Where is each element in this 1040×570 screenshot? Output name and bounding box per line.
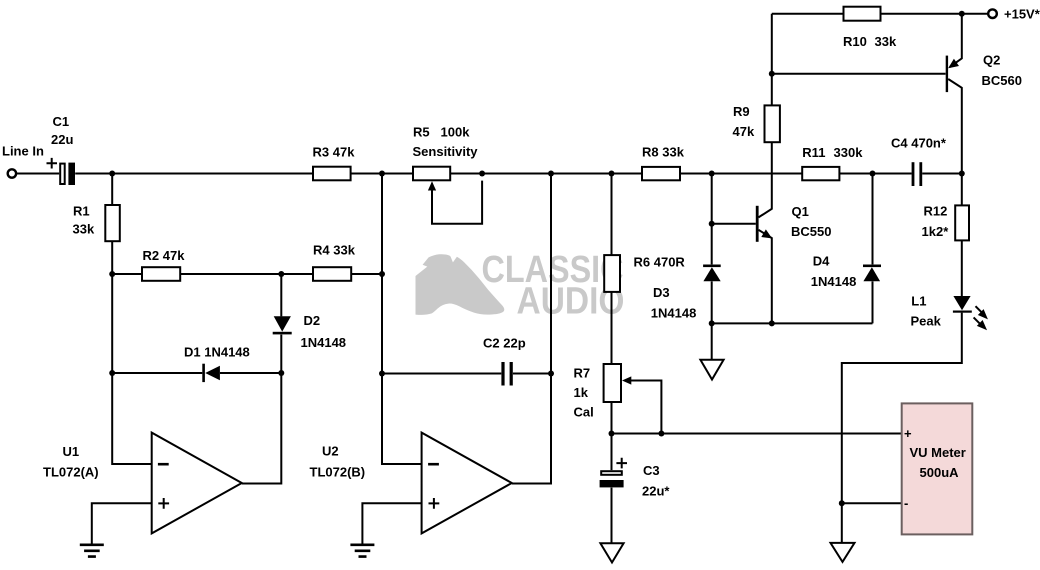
svg-text:D3: D3 [653,285,670,300]
svg-text:1N4148: 1N4148 [651,305,697,320]
op-amp U1 [152,433,242,534]
svg-text:R5: R5 [413,124,430,139]
ground (3-bar) under U1 [80,545,104,557]
wire: mid rail y=274 [112,273,382,275]
svg-text:R2 47k: R2 47k [143,248,186,263]
wire: Q1 base wire [712,223,756,225]
svg-text:U1: U1 [63,444,80,459]
wire: Q1 emitter to bottom rail [759,230,772,324]
LED L1 arrows [974,306,982,323]
svg-text:C3: C3 [643,463,660,478]
capacitor C1 plates [60,164,64,184]
capacitor C4 plates [912,162,915,186]
op-amp U2 [422,433,512,534]
wire: vertical x=771.8 from top rail through R9 to Q1 collector [759,14,772,218]
wire: U2 plus input to ground [362,503,421,543]
wire: vertical x=711.7 D3 branch [711,174,713,360]
diode D4 [863,265,881,268]
ground (triangle) under D3 [700,360,723,380]
capacitor C3 plates [601,471,622,475]
resistor R4 [313,267,351,281]
resistor R8 [642,167,680,180]
wire: C2 rail y=373.5 [382,373,551,375]
resistor R10 [844,7,881,21]
transistor Q1 [756,206,759,242]
resistor R9 [765,105,780,142]
potentiometer R7 body [604,364,621,402]
svg-text:R9: R9 [733,104,750,119]
wire: bottom rail y=323.4 [712,322,873,324]
resistor R3 [313,167,351,181]
capacitor C2 plates [501,362,504,386]
svg-text:C2 22p: C2 22p [483,335,526,350]
svg-text:R8 33k: R8 33k [642,144,685,159]
svg-text:D4: D4 [813,254,830,269]
svg-text:R4 33k: R4 33k [313,243,356,258]
wire: vertical x=872.5 D4 branch [872,174,874,324]
diode D1 [205,366,220,381]
wire: Q2 base wire y=73.7 [772,73,946,75]
wire: vertical x=551 to U2 output [512,174,551,484]
resistor R1 [105,205,120,241]
svg-text:33k: 33k [73,221,95,236]
wire: cal rail y=433.5 to VU plus [612,433,902,435]
svg-text:R7: R7 [574,366,591,381]
wire: D1 feedback rail y=373 [112,372,281,374]
svg-text:1N4148: 1N4148 [301,335,347,350]
supply terminal +15V [988,9,997,18]
wire: vertical x=961.8 through R12 LED down to VU minus and ground [842,174,962,543]
svg-text:+: + [904,426,912,441]
watermark logo silhouette [416,254,505,315]
svg-text:C4 470n*: C4 470n* [891,136,947,151]
resistor R2 [142,267,180,281]
wire: R7 wiper return [630,381,662,434]
potentiometer R5 wiper arrow [428,181,436,190]
svg-text:TL072(B): TL072(B) [310,465,366,480]
svg-text:33k: 33k [875,34,897,49]
svg-text:500uA: 500uA [920,465,960,480]
svg-text:-: - [904,496,908,511]
svg-text:1k: 1k [574,385,589,400]
wire: top supply rail y=13.7 [772,13,988,15]
diode D2 [274,316,291,331]
svg-text:+15V*: +15V* [1004,6,1040,21]
svg-text:R6 470R: R6 470R [634,255,686,270]
resistor R11 [802,167,839,180]
diode D3 [703,265,721,268]
svg-text:TL072(A): TL072(A) [43,465,99,480]
wire: vertical x=611.5 through R6 R7 C3 [611,174,613,544]
wire: top signal rail y=173.5 [16,173,962,175]
resistor R6 [604,255,620,292]
svg-text:22u: 22u [51,132,73,147]
svg-text:R1: R1 [73,203,90,218]
svg-text:BC550: BC550 [791,224,831,239]
wire: vertical x=281.3 D2 branch to U1 output [242,274,281,484]
resistor R12 [955,205,969,240]
LED L1 [953,296,970,310]
svg-text:C1: C1 [53,114,70,129]
svg-text:Q1: Q1 [792,204,809,219]
svg-text:BC560: BC560 [982,73,1022,88]
svg-text:U2: U2 [322,444,339,459]
wire: U1 plus input to ground [92,503,152,543]
svg-text:R11: R11 [802,145,825,160]
ground (triangle) under VU meter [831,543,855,562]
svg-text:1N4148: 1N4148 [811,274,857,289]
svg-text:22u*: 22u* [642,484,670,499]
wire: Q2 emitter and collector [948,14,962,174]
VU meter box [902,403,973,534]
transistor Q2 [946,56,948,93]
wire: vertical x=382 to U2 minus input [382,174,422,465]
wire: R5 wiper return [432,181,482,224]
svg-text:D2: D2 [304,313,321,328]
input terminal Line In [8,169,16,177]
svg-text:Peak: Peak [911,314,942,329]
svg-text:Sensitivity: Sensitivity [413,144,479,159]
ground (triangle) under C3 [600,543,623,562]
capacitor C3 plus sign [616,458,627,469]
svg-text:100k: 100k [441,124,471,139]
svg-text:L1: L1 [911,294,926,309]
wire: left vertical x=112.2 and U1 minus input [112,174,152,465]
svg-text:R3 47k: R3 47k [313,144,356,159]
svg-text:D1 1N4148: D1 1N4148 [184,345,250,360]
svg-text:VU Meter: VU Meter [910,445,966,460]
potentiometer R7 wiper arrow [622,376,631,384]
svg-text:47k: 47k [733,124,755,139]
svg-text:Line In: Line In [2,143,44,158]
ground (3-bar) under U2 [350,545,374,557]
potentiometer R5 body [413,167,450,181]
svg-text:R10: R10 [843,34,867,49]
svg-text:1k2*: 1k2* [922,224,950,239]
svg-text:Q2: Q2 [983,52,1000,67]
svg-text:Cal: Cal [574,404,594,419]
svg-text:330k: 330k [834,145,864,160]
capacitor C1 plus sign [47,158,58,169]
svg-text:R12: R12 [924,203,948,218]
